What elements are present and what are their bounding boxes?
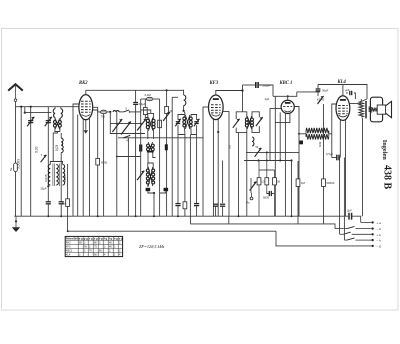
wire 30pF top [317,85,319,90]
capacitor 2uF [347,209,352,220]
volume potentiometer [250,178,257,193]
wire osc bottom b [153,193,155,216]
wire KL4 grid left [332,104,336,158]
node bus3 a [67,230,69,232]
wire coil L3 frame [50,162,62,165]
node IFT3 top [241,89,243,91]
wire bandpass winding legs [183,127,186,133]
wire branch x30 [30,107,32,217]
wire column x172 [171,97,173,216]
wire pad2 to bus [60,204,62,216]
wire bp left drop2 [177,206,179,217]
wire coil L2 leads [60,153,62,202]
wire KF3 screen right [223,112,229,217]
capacitor coupling black [299,141,303,145]
svg-text:− A: − A [377,239,381,243]
antenna [8,84,23,101]
svg-text:RK2: RK2 [66,242,71,245]
wire cap5000 wires [267,191,270,194]
node input junction b [30,106,32,108]
node L3 tap [47,185,49,187]
wire x215 to bus [215,206,217,216]
node bus1 d [135,215,137,217]
svg-text:Ingelen: Ingelen [381,140,388,160]
detector diode arrow [255,148,262,157]
svg-text:438 B: 438 B [381,165,392,190]
label AF values [261,181,280,184]
wire 500pF to right [258,85,273,96]
capacitor 0,5uF [326,152,339,160]
svg-text:5a: 5a [9,167,13,171]
wire IFT3 frame bot [236,127,247,133]
IF transformer 1 windings [146,117,155,130]
wire KBC1 right lead [294,107,299,217]
wire x141 column [140,99,142,216]
wire tone row [117,156,141,158]
svg-text:KL4: KL4 [66,254,71,257]
wire cap01 down [135,104,137,216]
node det output [290,159,292,161]
svg-text:f-g: f-g [109,238,113,241]
node det row b [266,151,268,153]
wire rings bottom drop [53,132,57,162]
svg-text:Pu: Pu [246,201,250,205]
wire res 04 leads b [323,187,325,224]
wire KL4 legs b [345,120,347,216]
core lines L3 [53,164,59,187]
wire KL4 anode right [350,103,362,105]
wire IFT1 top frame [148,113,154,119]
svg-text:1μF: 1μF [265,97,270,101]
resistor r-a [143,108,147,115]
wire column x228 [228,216,230,224]
speaker frame [370,97,382,122]
capacitor black mid b [165,144,168,150]
wire KL4 legs [339,120,341,158]
wire res 04 leads [323,104,325,179]
trimmer capacitor input 2 [45,117,52,127]
voltage table [65,236,123,256]
svg-text:+ A: + A [377,233,381,237]
wire res5000 to bus [97,165,99,216]
switch row4 [344,238,381,243]
ground [12,216,20,232]
wire IFT3 left drop [238,133,240,217]
label 1uF [265,97,270,101]
wire IFT3 mid drop [246,133,248,217]
wire KBC1 top rail [273,92,297,96]
wire cap top wires [346,92,348,94]
wire coil L1b bottom lead [60,133,62,138]
tube KL4 [336,96,350,121]
field coil choke [306,128,329,140]
fuse 5a [9,163,17,172]
wire RK2 pin lead b [89,119,91,217]
wire trimmer row [110,123,140,125]
svg-text:s-g: s-g [89,238,93,241]
svg-text:2μF: 2μF [347,209,352,213]
wire bus3 rail [68,230,276,232]
wire KBC1 legs b [275,113,290,122]
wire bus1 main ground rail [14,215,348,217]
wire KBC1 extra leg [279,113,281,161]
svg-text:500pF: 500pF [262,84,270,88]
wire res1M leads [67,164,69,199]
svg-text:a-g: a-g [94,238,98,241]
capacitor 5000 AF [263,191,271,200]
wire RK2 pin lead a [82,119,84,217]
capacitor 5uF top [345,89,352,95]
svg-text:− A: − A [377,227,381,231]
wire 04M wire right [153,98,160,100]
IFT3 windings [245,116,253,129]
IFT3 trimmer right [256,117,263,126]
wire KF3 plate lead [216,91,243,96]
wire feed row4 [343,158,345,241]
wire switch4 row [118,137,203,139]
capacitor black mid a [139,145,142,152]
node KBC1 top [287,95,289,97]
output transformer secondary [369,107,373,112]
wire IFT1 bot frame [147,129,149,139]
svg-text:5000: 5000 [101,161,108,165]
speaker driver [372,105,386,114]
wire res 1M right leads [297,161,299,179]
tube KBC1 [281,100,294,113]
wire coupling coil leads [183,90,185,95]
oscillator coil windings [146,167,154,186]
wire IFT2 leads b [153,153,156,158]
wire r-a leads [144,99,146,108]
wire column x203 [202,107,204,216]
capacitor above bus b [194,204,199,206]
rf choke [113,111,119,112]
wire det output row [244,160,292,162]
label ZF frequency [139,244,165,250]
tube RK2 [79,95,93,120]
capacitor padding black b [164,188,169,191]
coil L3c [63,165,65,186]
capacitor above bus c [213,204,218,206]
node extra leg [279,160,281,162]
wire KDA2 wires [317,91,319,96]
resistor AF b [265,152,269,191]
wire coupling to bp [184,106,185,116]
diode KDA2 [317,96,325,104]
svg-text:KF3: KF3 [66,246,71,249]
wire x128 column [127,138,129,216]
tube label KL4 [337,80,347,85]
capacitor above bus d [220,204,225,206]
wire feed row3 [339,229,341,235]
wire RK2 left grid lead [73,104,79,113]
wire bandpass winding tops b [190,116,192,118]
wire bp left drop [177,135,179,204]
svg-text:30pF: 30pF [322,89,329,93]
wire switch to right [130,111,142,113]
wire bp right drop [196,135,198,204]
wire 05uF wires [332,157,337,159]
wire choke to switch [119,111,123,113]
wire res 1M right leads b [297,187,299,224]
svg-text:μμF: μμF [345,89,350,92]
switch 4 [124,135,131,142]
svg-text:1M: 1M [62,201,67,205]
wire padder join b [160,191,166,193]
wire branch x21 [20,107,22,217]
detector label 50 [256,146,259,149]
svg-text:f-g: f-g [104,238,108,241]
wire ot primary top [361,99,367,101]
IFT3 trimmer left [233,119,240,128]
wire pad1 to bus [47,204,49,216]
node detector [257,159,259,161]
coil L3 labels [44,174,67,182]
IFT2 secondary bar [147,151,154,153]
svg-text:5000: 5000 [263,196,270,200]
wire KBC1 grid left [270,109,281,161]
wire KBC1 legs [284,113,286,216]
capacitor 15uF label [40,186,47,190]
resistor 0,4M top [145,93,153,101]
wire bus2 rail [190,224,335,229]
terminal row1 +a [361,221,381,225]
wire KL4 top rail [343,85,367,100]
wire column x159 [159,99,161,216]
svg-text:0,03: 0,03 [34,146,38,153]
capacitor 0,0003 label [17,159,21,169]
wire column x291 det [291,161,293,217]
wire r-a leads b [145,115,148,118]
svg-text:0,3: 0,3 [261,181,265,184]
trimmer bp left [175,119,181,127]
label GW [318,142,322,147]
band switch 7 [41,153,47,162]
svg-text:700: 700 [100,114,105,118]
svg-text:GW: GW [318,142,322,147]
svg-text:4: 4 [126,139,128,143]
wire det row upper [246,151,299,153]
wire osc bottom [147,184,149,187]
wire IFT3 frame top [236,112,247,119]
capacitor 500pF [256,82,271,88]
terminal row5 -E [371,245,381,249]
transformer T1 windings [53,119,61,130]
wire 04M wire left [141,98,147,100]
capacitor 0,1uF [133,102,146,106]
trimmer top mid [163,112,170,121]
svg-text:1000: 1000 [63,175,67,182]
wire bus2 feed [189,135,191,224]
capacitor above bus a [175,204,180,206]
switch row3 [340,232,381,237]
svg-text:Röhre/Stift: Röhre/Stift [66,238,79,241]
wire grid input top rail [16,106,79,108]
capacitor 30pF [316,89,329,93]
wire choke leads b [329,133,332,135]
wire IFT3 primary top [242,91,244,113]
svg-text:RK2: RK2 [79,81,88,86]
wire bus1 after cap [352,216,361,222]
wire antenna lead [15,102,17,217]
wire box around varcap [118,133,145,135]
svg-text:0,035: 0,035 [44,174,48,182]
resistor 5000 [96,159,108,166]
svg-text:1M: 1M [277,181,280,184]
node choke tap [298,133,300,135]
wire KBC1 plate lead [287,96,289,100]
coil L3b [56,165,58,186]
resistor 1M right [296,179,305,187]
wire res mid leads [184,135,186,202]
wire L1a to rings [54,118,56,121]
node bus1 a [47,215,49,217]
svg-text:KBC 1: KBC 1 [279,81,293,86]
coil L3a [48,165,50,186]
node input junction a [20,106,22,108]
wire rings bottom U [55,127,60,131]
resistor r-b [165,107,173,114]
svg-text:50: 50 [256,146,259,149]
wire bp frame top r [191,115,197,120]
wire left column x73 [72,113,74,217]
svg-text:KF3: KF3 [209,81,219,86]
wire osc frame [148,163,153,169]
detector coil [252,137,254,146]
wire rail connector [242,85,244,91]
svg-text:ZF=128,5 kHz: ZF=128,5 kHz [139,244,165,250]
wire RK2 aux lead [92,107,97,110]
node coupling [183,110,185,112]
output transformer core [365,101,367,118]
svg-text:KBC1: KBC1 [66,250,73,253]
trimmer RF a2 [121,122,131,135]
node tone [116,156,118,158]
tube label KBC1 [279,81,293,86]
trimmer tone [137,171,144,181]
resistor mid [183,202,187,209]
IF transformer 2 windings [147,142,155,153]
svg-text:0,1μF: 0,1μF [139,102,146,106]
wire IFT1 feed [141,110,151,113]
node bus1 b [60,215,62,217]
node 500pF rail [241,89,243,91]
node bus1 h [291,215,293,217]
wire bp frame top [178,115,185,120]
node screen junction [109,111,111,113]
svg-text:0,03: 0,03 [55,145,59,151]
node top rail [166,89,168,91]
wire IFT2 leads [147,153,149,163]
svg-text:KDA2: KDA2 [317,98,325,102]
svg-text:a-g: a-g [79,238,83,241]
wire column x222 [222,161,224,204]
wire cap5000 wires b [271,193,274,195]
node bus1 g [238,215,240,217]
node bus1 e [153,215,155,217]
wire RK2 cathode drop [85,120,87,130]
capacitor padding black a [146,188,151,191]
wire bp right drop2 [196,206,198,217]
wire coil L1 top leads [54,107,56,109]
wire KF3 leg b [217,119,219,216]
speaker cone [386,101,392,117]
svg-text:k-g: k-g [99,238,103,241]
resistor 0,4M [322,179,335,187]
node x141 [140,146,142,148]
terminal Pu [246,193,253,205]
node input junction c [24,112,26,114]
svg-text:0,4M: 0,4M [145,93,152,97]
trimmer capacitor input 1 [27,117,34,127]
coil L2 secondary [55,138,63,152]
node osc [153,192,155,194]
KF3 pin node [217,131,219,133]
resistor AF c [273,170,277,216]
tube label RK2 [79,81,88,86]
wire coil L1b top lead [60,107,62,109]
inductor label 0,03 [34,146,38,153]
wire capacitor 500pF rail [243,84,256,86]
wire RK2 plate top lead [86,90,184,94]
wire bp frame bottom r [191,125,197,134]
wire IFT1 bot frame b [153,129,155,139]
coil L1b [61,109,63,118]
svg-text:1M: 1M [301,181,306,185]
wire KL4 top lead [318,85,343,96]
svg-text:+ a: + a [377,221,382,225]
wire KF3 grid left [203,106,209,108]
coil L1a [53,109,55,118]
wire x116 column [116,112,118,216]
svg-text:h-g: h-g [114,238,118,241]
output transformer primary [359,101,364,117]
wire padder join [148,191,154,193]
label 3,0 [228,144,232,149]
wire KF3 cathode legs [212,119,214,216]
tube KF3 [209,95,224,120]
wire res1M to bus3 [67,206,69,231]
capacitor C pad1 [46,202,51,204]
node bus1 c [97,215,99,217]
wire agc line [97,110,99,159]
wire x222 to bus [222,206,224,216]
svg-text:s-g: s-g [119,238,123,241]
wire column x275 [274,96,276,216]
wire bandpass winding tops [183,116,186,118]
node det row c [266,160,268,162]
capacitor C pad2 [59,202,64,204]
switch row2 [335,226,381,231]
svg-text:0,5μF: 0,5μF [326,152,333,156]
resistor AF a [257,161,261,217]
wire column x166 [166,90,168,216]
wire second input rail [25,107,52,113]
trimmer RF b [137,119,146,131]
wire bandpass winding legs b [190,127,192,133]
wire cap01 top [135,90,137,102]
wire choke leads [299,133,307,135]
svg-text:5: 5 [126,106,128,110]
wire stub x172 [172,96,178,98]
node bus1 f [177,215,179,217]
wire IFT3 frame top r [252,112,259,118]
wire cap top wires b [354,93,356,99]
wire bp frame bottom [178,125,185,134]
svg-text:15μF: 15μF [40,186,47,190]
RK2 grid cap arrow [84,130,88,133]
wire res mid leads b [184,209,186,216]
